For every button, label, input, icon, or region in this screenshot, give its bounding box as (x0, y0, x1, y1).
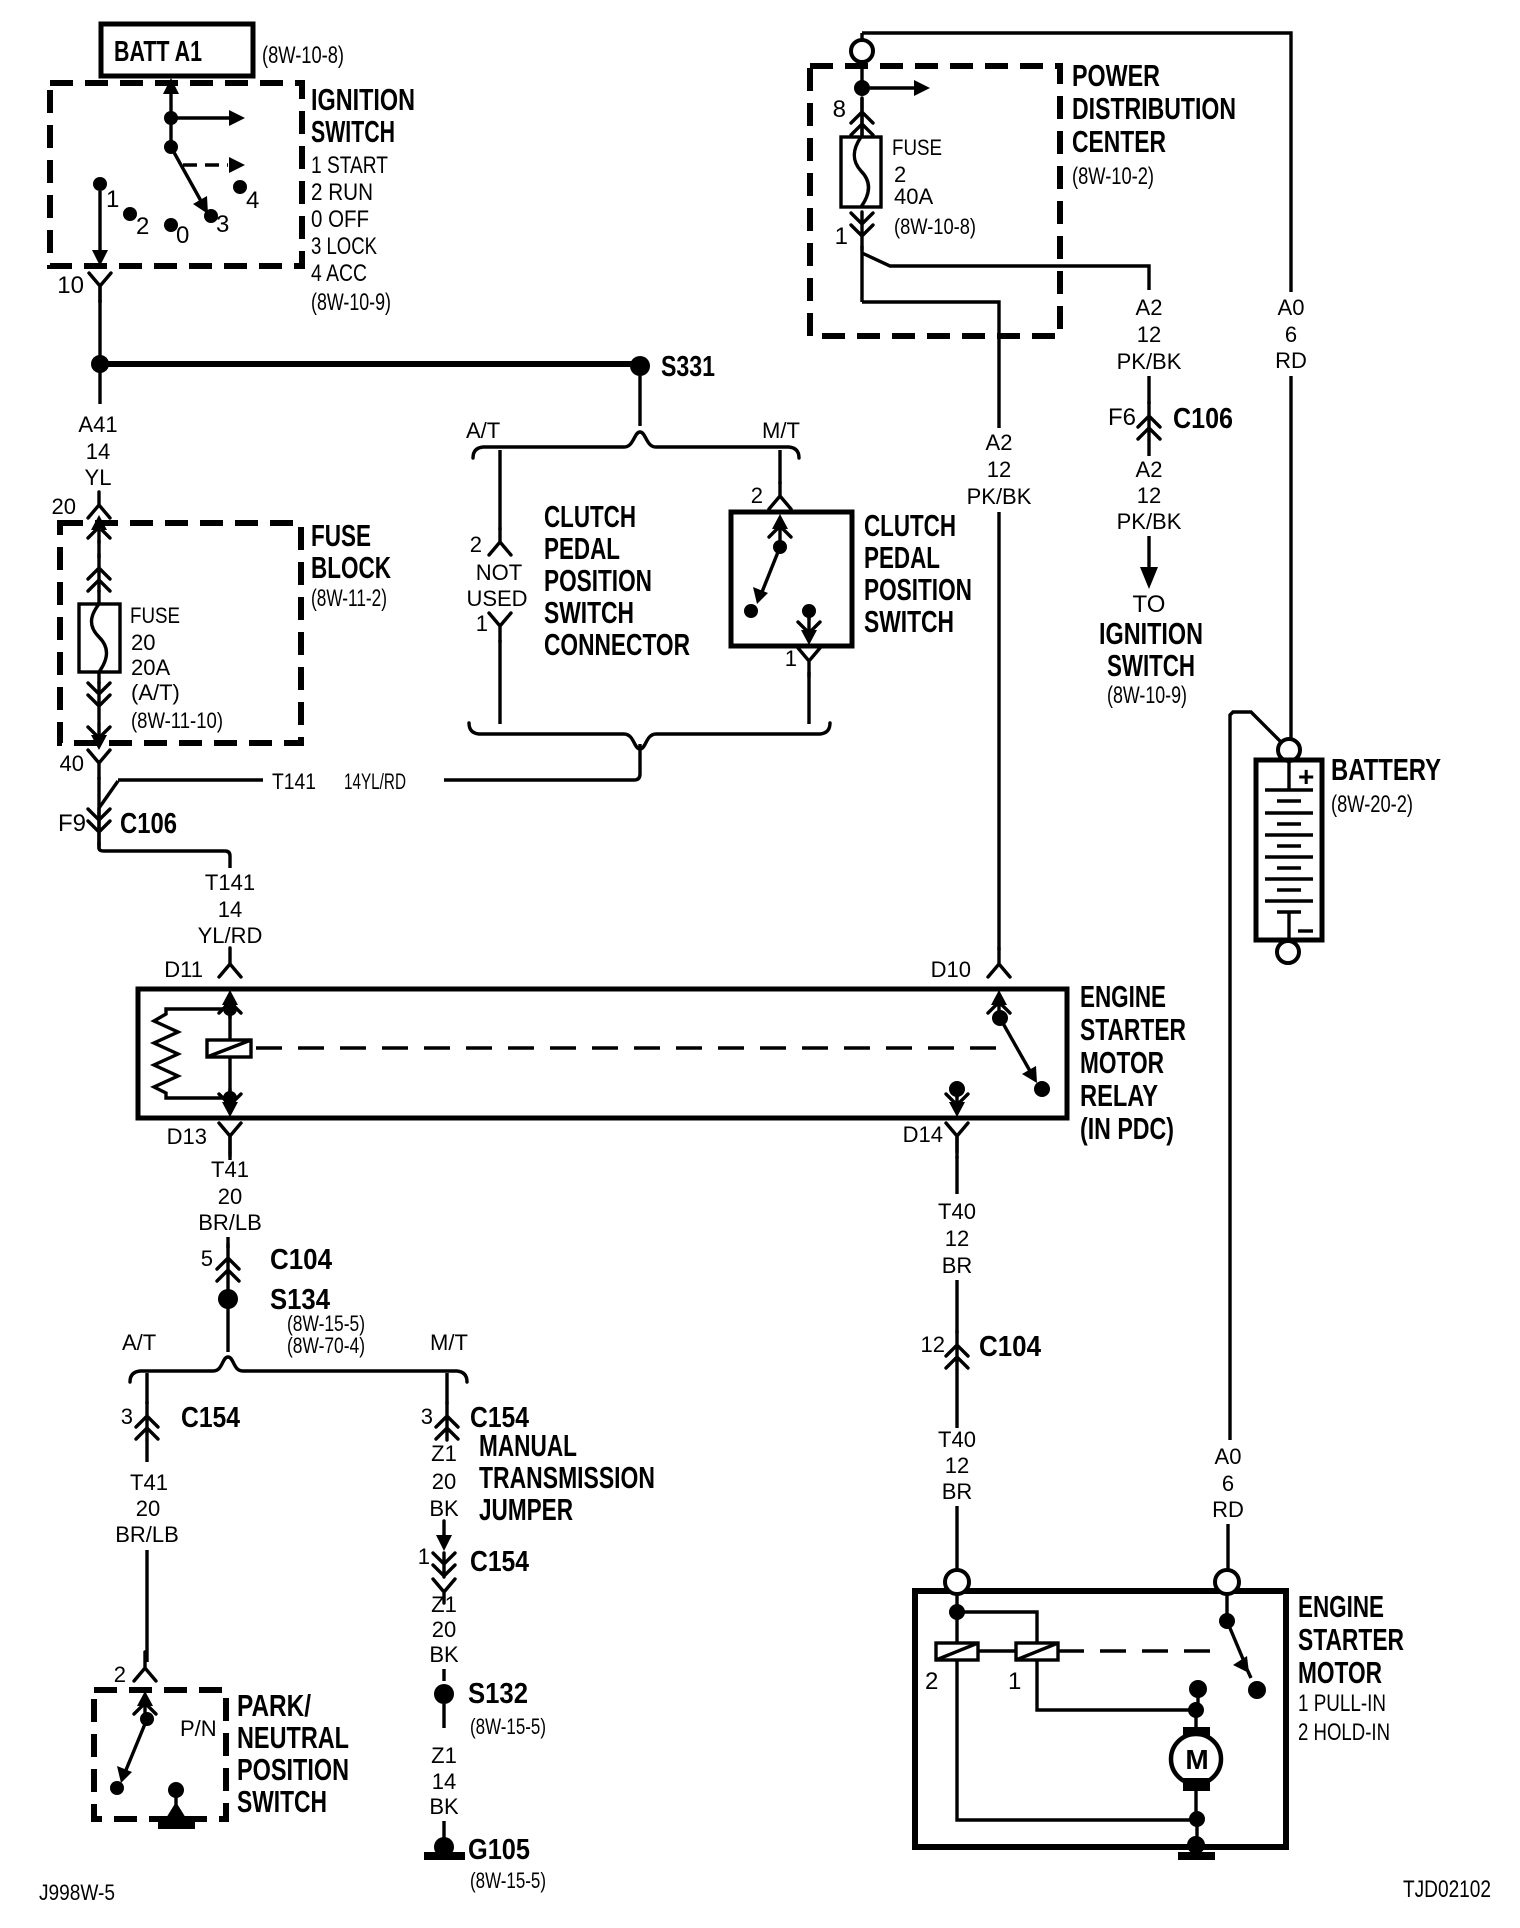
clutch pedal position switch label (864, 508, 972, 639)
svg-text:CLUTCH: CLUTCH (864, 508, 956, 543)
relay pin D14 exit arrow (946, 1089, 968, 1117)
svg-text:T40: T40 (938, 1427, 976, 1452)
branch labels A/T M/T at S331 (466, 418, 800, 443)
splice S134 (218, 1284, 365, 1358)
splice node at A41 (91, 355, 109, 373)
ignition switch output arrow (run feed) (171, 110, 245, 126)
svg-text:C106: C106 (120, 808, 177, 840)
svg-text:(8W-10-8): (8W-10-8) (262, 42, 344, 69)
A/T branch wire (145, 1373, 148, 1404)
svg-text:+: + (1298, 761, 1314, 792)
fuse cavity lower terminal (double chevron) (88, 682, 110, 720)
clutch switch output node (802, 604, 816, 618)
engine starter motor box (915, 1591, 1286, 1847)
svg-text:A0: A0 (1215, 1444, 1242, 1469)
svg-text:14YL/RD: 14YL/RD (344, 769, 406, 794)
svg-text:20: 20 (432, 1617, 456, 1642)
svg-text:TRANSMISSION: TRANSMISSION (479, 1460, 655, 1495)
wire label A2 12 PK/BK (F6 lower) (1117, 457, 1182, 534)
svg-text:1: 1 (418, 1544, 430, 1569)
svg-text:MANUAL: MANUAL (479, 1428, 577, 1463)
svg-text:Z1: Z1 (431, 1441, 457, 1466)
PDC fuse cavity pin 8 (833, 96, 873, 136)
wire fuse to lower cavity (97, 672, 100, 684)
svg-text:SWITCH: SWITCH (237, 1784, 327, 1819)
coil link dash (978, 1649, 1016, 1652)
svg-text:RELAY: RELAY (1080, 1078, 1158, 1113)
svg-text:ENGINE: ENGINE (1080, 979, 1166, 1014)
motor top brush terminal (1183, 1727, 1210, 1740)
svg-text:8: 8 (833, 96, 846, 123)
svg-text:M/T: M/T (762, 418, 800, 443)
svg-text:40A: 40A (894, 184, 933, 209)
wire terminal into PDC (860, 62, 863, 88)
svg-text:NOT: NOT (476, 560, 522, 585)
svg-text:3: 3 (121, 1404, 133, 1429)
starter coil feed wire (955, 1594, 958, 1643)
svg-text:2: 2 (470, 532, 482, 557)
relay coil top node (223, 1002, 237, 1016)
relay switch common node (992, 1010, 1008, 1026)
svg-text:T141: T141 (272, 769, 316, 794)
T141 tap wire left segment (118, 778, 263, 781)
svg-text:14: 14 (432, 1769, 456, 1794)
PDC node (854, 80, 870, 96)
wire to fuse 20 (97, 590, 100, 604)
svg-text:20: 20 (432, 1469, 456, 1494)
pin 40 connector (60, 750, 110, 779)
svg-text:(8W-10-9): (8W-10-9) (311, 289, 391, 316)
svg-text:RD: RD (1275, 348, 1307, 373)
wire A0 to battery positive (1289, 376, 1292, 740)
fuse 20 labels (130, 603, 223, 733)
fuse block entry arrow (88, 515, 110, 543)
wire stub to G105 (442, 1821, 445, 1838)
battery internal stem bottom (1287, 912, 1290, 939)
fuse block label (311, 518, 391, 612)
ignition switch feed arrow to BATT A1 (163, 78, 179, 118)
wire S134 to split (226, 1308, 229, 1352)
wire label Z1 20 BK (jumper) (429, 1441, 459, 1521)
battery minus sign (1298, 929, 1313, 932)
svg-text:20: 20 (218, 1184, 242, 1209)
svg-text:SWITCH: SWITCH (311, 114, 395, 149)
wire label A41 14 YL (78, 412, 117, 490)
clutch switch pin 1 connector (785, 646, 820, 677)
svg-text:T41: T41 (130, 1470, 168, 1495)
relay coil K1 (207, 1040, 251, 1057)
clutch switch pin 2 connector (751, 482, 791, 509)
svg-text:2: 2 (925, 1668, 938, 1695)
PDC branch arrow (862, 80, 930, 96)
svg-text:10: 10 (57, 272, 84, 299)
manual transmission jumper label (479, 1428, 655, 1527)
starter switch contact (1248, 1681, 1266, 1699)
fuse 2 labels (892, 135, 976, 239)
svg-text:BLOCK: BLOCK (311, 550, 391, 585)
wire to C104 (955, 1280, 958, 1333)
svg-text:CONNECTOR: CONNECTOR (544, 627, 690, 662)
svg-text:12: 12 (987, 457, 1011, 482)
PDC fuse cavity pin 1 (835, 212, 873, 250)
svg-text:(8W-20-2): (8W-20-2) (1331, 791, 1413, 818)
wire motor to ground node (1194, 1791, 1197, 1815)
svg-text:D10: D10 (931, 957, 971, 982)
svg-text:PK/BK: PK/BK (967, 484, 1032, 509)
svg-text:20: 20 (131, 630, 155, 655)
svg-text:SWITCH: SWITCH (1107, 648, 1195, 683)
svg-text:1: 1 (785, 646, 797, 671)
battery feed box BATT A1 (101, 24, 253, 76)
fuse 20 20A (79, 604, 120, 672)
svg-text:2: 2 (136, 213, 149, 240)
svg-text:BK: BK (429, 1642, 459, 1667)
engine starter motor relay box (138, 989, 1067, 1118)
clutch connector pin 2 (470, 528, 511, 557)
starter terminal B1 (945, 1570, 969, 1594)
svg-text:(8W-11-2): (8W-11-2) (311, 585, 387, 612)
svg-text:USED: USED (466, 586, 527, 611)
label TO IGNITION SWITCH (1099, 591, 1203, 709)
starter motor input contact (1189, 1680, 1207, 1698)
svg-text:3: 3 (421, 1404, 433, 1429)
svg-text:BR/LB: BR/LB (198, 1210, 262, 1235)
battery negative terminal (1277, 941, 1299, 963)
label NOT USED (466, 560, 527, 611)
svg-text:12: 12 (1137, 483, 1161, 508)
svg-text:C104: C104 (979, 1331, 1041, 1363)
wire C104 down (955, 1369, 958, 1428)
svg-text:G105: G105 (468, 1834, 530, 1866)
svg-text:T41: T41 (211, 1157, 249, 1182)
wire hold-in coil to ground bus (957, 1660, 1192, 1820)
wire C154 down (A/T) (145, 1440, 148, 1462)
fuse block exit arrow (88, 722, 110, 750)
wire label A2 12 PK/BK (F6 upper) (1117, 295, 1182, 374)
starter actuator dashed link (1058, 1649, 1213, 1652)
M/T branch wire (778, 450, 781, 484)
svg-text:PK/BK: PK/BK (1117, 509, 1182, 534)
svg-text:20: 20 (136, 1496, 160, 1521)
connector C154 pin 1 (418, 1544, 529, 1578)
svg-text:A/T: A/T (466, 418, 500, 443)
svg-text:5: 5 (201, 1246, 213, 1271)
ignition switch label block (311, 82, 415, 316)
svg-text:12: 12 (945, 1226, 969, 1251)
clutch pedal position switch connector label (544, 499, 690, 662)
wire stub to S132 (442, 1669, 445, 1681)
svg-text:40: 40 (60, 751, 84, 776)
battery plates (1265, 790, 1313, 912)
relay coil bottom node (223, 1091, 237, 1105)
svg-text:BK: BK (429, 1794, 459, 1819)
svg-text:ENGINE: ENGINE (1298, 1589, 1384, 1624)
wire C104 to S134 (226, 1282, 229, 1292)
wire to C106 F6 (1147, 376, 1150, 404)
svg-text:C104: C104 (270, 1244, 332, 1276)
relay suppression resistor (154, 1009, 230, 1098)
wire label T141 14 YL/RD (198, 870, 263, 948)
svg-text:YL/RD: YL/RD (198, 923, 263, 948)
svg-text:SWITCH: SWITCH (544, 595, 634, 630)
splice S132 (434, 1678, 546, 1739)
pin D11 connector (164, 948, 241, 982)
svg-text:POSITION: POSITION (237, 1752, 349, 1787)
splice S331 (630, 351, 715, 383)
svg-text:C154: C154 (470, 1546, 529, 1578)
pin 10 connector (57, 272, 111, 302)
svg-text:MOTOR: MOTOR (1298, 1655, 1382, 1690)
jumper exit arrow (436, 1521, 452, 1551)
svg-text:20A: 20A (131, 655, 170, 680)
wire contact to motor node (1196, 1689, 1199, 1706)
svg-text:20: 20 (52, 494, 76, 519)
svg-text:TO: TO (1133, 591, 1166, 618)
svg-text:STARTER: STARTER (1080, 1012, 1186, 1047)
pin 20 connector (52, 492, 110, 519)
clutch pedal position switch box (731, 512, 852, 646)
svg-text:2: 2 (114, 1662, 126, 1687)
connector C106 pin F9 (58, 808, 177, 846)
bus wire to S331 (100, 361, 638, 367)
svg-text:S331: S331 (661, 351, 715, 383)
wire fuse output down (860, 246, 863, 302)
svg-text:0 OFF: 0 OFF (311, 206, 369, 233)
svg-text:(8W-70-4): (8W-70-4) (287, 1333, 365, 1358)
svg-text:BR: BR (942, 1479, 973, 1504)
wire label T41 20 BR/LB (198, 1157, 262, 1235)
wire to fuse 2 (860, 98, 863, 137)
svg-text:A41: A41 (78, 412, 117, 437)
svg-text:P/N: P/N (180, 1716, 217, 1741)
svg-text:J998W-5: J998W-5 (39, 1880, 115, 1905)
svg-text:F6: F6 (1108, 404, 1136, 431)
wire label Z1 14 BK (429, 1743, 459, 1819)
svg-text:PEDAL: PEDAL (544, 531, 620, 566)
svg-text:D13: D13 (167, 1124, 207, 1149)
svg-text:(8W-15-5): (8W-15-5) (470, 1868, 546, 1893)
starter terminal B2 (1215, 1570, 1239, 1594)
svg-text:PARK/: PARK/ (237, 1688, 311, 1723)
svg-text:(8W-15-5): (8W-15-5) (470, 1714, 546, 1739)
svg-text:14: 14 (86, 439, 110, 464)
wire label T40 12 BR lower (938, 1427, 976, 1504)
wire label A2 12 PK/BK (D10) (967, 430, 1032, 509)
label T141 14YL/RD (272, 769, 406, 794)
wire S331 down to split (638, 376, 641, 426)
svg-text:PK/BK: PK/BK (1117, 349, 1182, 374)
svg-text:A2: A2 (1136, 457, 1163, 482)
svg-text:RD: RD (1212, 1497, 1244, 1522)
wire D14 down (955, 1156, 958, 1194)
svg-text:D14: D14 (903, 1122, 943, 1147)
svg-text:T141: T141 (205, 870, 255, 895)
wire pin 40 down (97, 777, 100, 849)
PDC feed terminal (851, 40, 873, 62)
wire label A0 6 RD (starter) (1212, 1444, 1244, 1522)
svg-text:2 HOLD-IN: 2 HOLD-IN (1298, 1719, 1390, 1746)
battery label (1331, 752, 1441, 818)
starter case ground (1178, 1836, 1215, 1860)
connector C154 pin 3 (M/T) (421, 1402, 529, 1440)
fuse 2 40A (841, 137, 881, 207)
svg-text:A2: A2 (1136, 295, 1163, 320)
svg-text:3: 3 (216, 211, 229, 238)
A/T connector branch wire (498, 450, 501, 530)
wire terminal to top bus (860, 33, 863, 40)
wire node to case ground (1195, 1819, 1198, 1842)
svg-text:(A/T): (A/T) (131, 680, 180, 705)
park/neutral position switch box (dashed) (94, 1690, 226, 1819)
ground G105 (424, 1834, 546, 1893)
PDC label block (1072, 58, 1236, 190)
clutch switch exit arrow (798, 611, 820, 645)
svg-text:1 START: 1 START (311, 152, 388, 179)
svg-text:POSITION: POSITION (544, 563, 652, 598)
ignition switch wiper arm to contact 3 (171, 147, 208, 214)
pin D14 connector (903, 1122, 968, 1158)
svg-text:1: 1 (476, 611, 488, 636)
svg-text:12: 12 (1137, 322, 1161, 347)
svg-text:CENTER: CENTER (1072, 124, 1166, 159)
svg-text:F9: F9 (58, 810, 86, 837)
clutch connector pin 1 (476, 611, 511, 642)
battery box (1256, 760, 1322, 940)
battery internal stem top (1287, 761, 1290, 790)
svg-text:12: 12 (921, 1332, 945, 1357)
svg-text:C154: C154 (181, 1402, 240, 1434)
pin D13 connector (167, 1123, 241, 1156)
svg-text:MOTOR: MOTOR (1080, 1045, 1164, 1080)
motor feed node (1188, 1702, 1204, 1718)
clutch switch common node (773, 540, 787, 554)
svg-text:(8W-10-9): (8W-10-9) (1107, 682, 1187, 709)
relay label block (1080, 979, 1186, 1146)
svg-text:IGNITION: IGNITION (311, 82, 415, 117)
svg-text:1: 1 (1008, 1668, 1021, 1695)
top bus wire to battery (862, 33, 1291, 292)
wire D13 down (228, 1152, 231, 1160)
svg-text:BATTERY: BATTERY (1331, 752, 1441, 787)
wire C106 to D11 with jog (99, 842, 230, 868)
svg-text:BR: BR (942, 1253, 973, 1278)
svg-text:M: M (1185, 1744, 1208, 1775)
connector C104 pin 5 (201, 1244, 332, 1282)
P/N label block (237, 1688, 349, 1819)
svg-text:POWER: POWER (1072, 58, 1160, 93)
A/T branch wire to merge (498, 640, 501, 724)
relay coil wire (228, 1009, 231, 1098)
ignition switch wiper pivot (164, 140, 178, 154)
svg-text:(IN PDC): (IN PDC) (1080, 1111, 1174, 1146)
svg-text:M/T: M/T (430, 1330, 468, 1355)
motor bottom brush terminal (1183, 1778, 1210, 1791)
P/N switch common node (140, 1712, 217, 1741)
svg-text:PEDAL: PEDAL (864, 540, 940, 575)
fuse cavity terminal (double chevron) (88, 554, 110, 592)
ignition contact 2 (123, 207, 149, 240)
relay pin D14 node (949, 1081, 965, 1097)
T141 tap wire right segment (444, 744, 640, 780)
svg-text:T40: T40 (938, 1199, 976, 1224)
pin 2 connector (P/N) (114, 1652, 156, 1687)
wire pull-in coil to motor node (1037, 1660, 1191, 1710)
svg-text:TJD02102: TJD02102 (1403, 1876, 1491, 1903)
ignition contact 1 (93, 177, 119, 213)
relay switch arm (1000, 1018, 1037, 1083)
starter coil node (949, 1604, 965, 1620)
svg-text:D11: D11 (164, 957, 203, 982)
starter switch pivot (1219, 1613, 1235, 1629)
svg-text:2 RUN: 2 RUN (311, 179, 373, 206)
svg-text:Z1: Z1 (431, 1743, 457, 1768)
svg-text:STARTER: STARTER (1298, 1622, 1404, 1657)
ground bus node (1189, 1811, 1205, 1827)
clutch switch contact (open) (744, 604, 758, 618)
connector C154 pin 3 (A/T) (121, 1402, 240, 1440)
wire to C104 pin 5 (226, 1237, 229, 1248)
P/N switch entry arrow (134, 1691, 156, 1719)
relay switch contact (1034, 1081, 1050, 1097)
tap wire to C106 F6 (862, 253, 1149, 290)
wire stub below S132 (442, 1704, 445, 1728)
connector C104 pin 12 (921, 1331, 1041, 1369)
ignition contact 0 (164, 218, 189, 249)
ignition contact 3 (204, 209, 229, 238)
S331 split brace (473, 432, 799, 458)
wire label Z1 20 BK (lower) (429, 1592, 459, 1667)
branch labels A/T M/T at S134 (122, 1330, 468, 1355)
P/N switch contact (110, 1781, 124, 1795)
wire node to motor (1194, 1710, 1197, 1729)
svg-text:POSITION: POSITION (864, 572, 972, 607)
svg-text:2: 2 (751, 483, 763, 508)
M/T branch wire (445, 1373, 448, 1404)
starter switch arm (1227, 1621, 1251, 1678)
S134 split brace (130, 1357, 467, 1382)
svg-text:S132: S132 (468, 1678, 528, 1710)
wire label T40 12 BR (938, 1199, 976, 1278)
wire label A0 6 RD (top) (1275, 295, 1307, 373)
ignition switch dashed acc arrow (183, 157, 245, 173)
svg-text:4: 4 (246, 187, 259, 214)
relay pin D13 exit arrow (219, 1089, 241, 1117)
svg-text:IGNITION: IGNITION (1099, 616, 1203, 651)
svg-text:YL: YL (85, 465, 112, 490)
wire contact 1 to pin 10 (92, 191, 108, 266)
svg-text:6: 6 (1285, 322, 1297, 347)
ignition contact 4 (233, 180, 259, 214)
power distribution center box (dashed) (810, 66, 1060, 336)
wire A0 to starter terminal (1226, 1524, 1229, 1571)
relay pin D10 entry arrow (988, 990, 1010, 1018)
svg-text:1: 1 (835, 223, 848, 250)
M/T branch wire to merge (807, 672, 810, 724)
svg-text:FUSE: FUSE (311, 518, 371, 553)
svg-text:1 PULL-IN: 1 PULL-IN (1298, 1690, 1386, 1717)
relay pin D11 entry arrow (219, 990, 241, 1018)
svg-text:FUSE: FUSE (892, 135, 942, 160)
wire fuse output to D10 drop (862, 302, 999, 428)
svg-text:1: 1 (106, 186, 119, 213)
clutch switch entry arrow (769, 514, 791, 542)
wire C106 F6 down (1147, 440, 1150, 456)
P/N switch arm (117, 1719, 147, 1783)
svg-text:14: 14 (218, 897, 242, 922)
svg-text:(8W-10-8): (8W-10-8) (894, 214, 976, 239)
svg-text:C106: C106 (1173, 403, 1233, 435)
starter label block (1298, 1589, 1404, 1746)
